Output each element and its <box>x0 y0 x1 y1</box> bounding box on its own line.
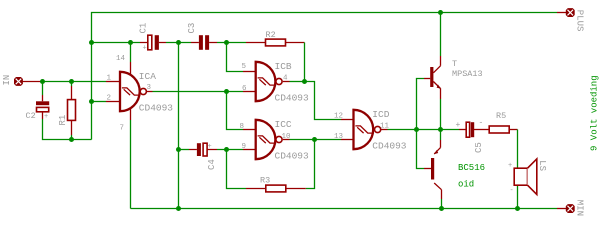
pad PLUS <box>566 9 584 32</box>
svg-text:LS: LS <box>537 160 547 171</box>
op-amp gate ICA <box>107 55 174 133</box>
transistor Q1 T MPSA13 <box>430 59 482 89</box>
svg-text:+: + <box>508 162 512 170</box>
capacitor C3 <box>187 23 217 50</box>
pin 8 ICC <box>243 129 256 131</box>
svg-text:CD4093: CD4093 <box>372 141 407 152</box>
wire C1 to C3 segment <box>166 42 191 44</box>
wire top PLUS rail <box>92 13 558 43</box>
pin 2 ICA <box>106 101 120 103</box>
svg-text:13: 13 <box>334 133 344 141</box>
pad MIN <box>566 200 584 216</box>
svg-text:IN: IN <box>2 75 12 86</box>
wire bottom MIN rail <box>131 208 558 210</box>
svg-text:ICA: ICA <box>139 71 156 82</box>
pin 9 ICC <box>243 149 256 151</box>
wire ICD out to bases node <box>388 129 441 131</box>
pin 10 ICC output <box>283 139 290 141</box>
op-amp gate ICC <box>240 119 310 162</box>
wire C4 right to pin9 <box>217 149 243 151</box>
svg-text:6: 6 <box>242 85 247 93</box>
wire C2 bottom to rail <box>43 119 92 140</box>
svg-text:3: 3 <box>147 84 152 92</box>
resistor R5 <box>489 111 509 133</box>
wire MIN pad stub <box>557 208 566 210</box>
node junction C3-R2 <box>224 40 229 45</box>
wire T emitter to node <box>440 99 442 130</box>
wire C2 branch <box>42 82 44 96</box>
svg-text:ICC: ICC <box>275 119 292 130</box>
node junction bases <box>414 127 419 132</box>
node junction IN-C2 <box>40 79 45 84</box>
wire ICB out to node <box>290 81 305 83</box>
wire node C3R2 down to pin5 <box>227 43 244 72</box>
wire pin7 to rail <box>130 120 132 209</box>
resistor R2 <box>266 30 286 46</box>
wire pin14 drop <box>130 43 132 63</box>
svg-text:ICD: ICD <box>372 109 389 120</box>
wire IN net <box>23 81 43 83</box>
wire R5 down to LS <box>517 130 519 209</box>
svg-text:R5: R5 <box>496 111 506 121</box>
svg-text:-: - <box>510 187 514 195</box>
resistor R1 <box>58 86 76 135</box>
wire C3 to R2 node segment <box>217 42 246 44</box>
capacitor C1 <box>139 23 167 53</box>
wire C4 left stub <box>179 149 190 151</box>
pin 7 ICA <box>130 108 132 120</box>
svg-text:C4: C4 <box>207 159 217 170</box>
node junction ICA out <box>224 89 229 94</box>
svg-text:-: - <box>479 119 484 128</box>
svg-text:9 Volt voeding: 9 Volt voeding <box>590 75 600 151</box>
svg-text:+: + <box>456 121 461 130</box>
node junction T collector rail <box>438 10 443 15</box>
resistor R3 lead right <box>286 188 306 190</box>
pin emitter T <box>440 88 442 99</box>
pin 11 ICD output <box>380 129 387 131</box>
wire R2 down to ICB out <box>304 43 306 82</box>
svg-text:R1: R1 <box>58 115 68 126</box>
pin collector BC516 <box>441 190 443 199</box>
node junction pin2 <box>89 99 94 104</box>
svg-text:11: 11 <box>380 122 390 130</box>
node junction VDD-C1 <box>89 40 94 45</box>
node junction ICC out <box>312 137 317 142</box>
svg-text:14: 14 <box>116 55 126 63</box>
pin emitter BC516 <box>440 140 442 148</box>
node junction R2-ICB out <box>302 79 307 84</box>
svg-text:ICB: ICB <box>275 61 292 72</box>
node junction R1 bottom <box>69 137 74 142</box>
wire node to BC516 emitter <box>440 130 442 141</box>
resistor R2 lead left <box>246 42 266 44</box>
speaker LS <box>508 159 547 195</box>
svg-text:MIN: MIN <box>575 200 585 216</box>
svg-text:12: 12 <box>334 112 343 120</box>
pin 13 ICD <box>341 139 354 141</box>
svg-text:T: T <box>452 59 457 69</box>
pin 14 ICA <box>130 62 132 75</box>
capacitor C4 <box>189 143 217 170</box>
wire ICB out to pin12 <box>305 82 342 120</box>
svg-text:CD4093: CD4093 <box>139 103 174 114</box>
capacitor C5 <box>456 119 485 154</box>
wire R1 top <box>71 82 73 87</box>
wire ICA out to ICB pin6 <box>153 91 244 93</box>
op-amp gate ICD <box>334 109 407 152</box>
node junction LS rail <box>515 206 520 211</box>
pin 1 ICA <box>106 81 120 83</box>
svg-text:oid: oid <box>458 180 474 190</box>
node junction C4-gnd <box>176 147 181 152</box>
pin 5 ICB <box>243 71 256 73</box>
svg-text:CD4093: CD4093 <box>275 151 310 162</box>
pin 6 ICB <box>243 91 256 93</box>
pin 12 ICD <box>341 119 354 121</box>
svg-text:R2: R2 <box>266 30 276 40</box>
wire base BC516 dropper <box>417 130 425 169</box>
svg-text:+: + <box>44 113 48 121</box>
node junction pin14 <box>128 40 133 45</box>
node junction emitters <box>438 127 443 132</box>
svg-text:10: 10 <box>282 133 292 141</box>
resistor R3 <box>260 176 286 192</box>
svg-text:PLUS: PLUS <box>575 10 585 32</box>
node junction gnd rail x178 <box>176 206 181 211</box>
svg-text:4: 4 <box>283 75 288 83</box>
node junction C1-gnd <box>176 40 181 45</box>
wire BC516 collector to rail <box>441 199 443 209</box>
pin base T <box>424 78 430 80</box>
wire VDD row to C1 <box>92 42 141 44</box>
wire ground vertical x178 <box>178 43 180 209</box>
svg-text:5: 5 <box>242 63 247 71</box>
wire ICC out to pin13 <box>290 139 342 141</box>
svg-text:C1: C1 <box>139 23 149 34</box>
wire IN to pin1 <box>43 81 107 83</box>
svg-text:C2: C2 <box>26 111 36 121</box>
wire ICC out down to R3 <box>306 140 315 189</box>
wire R3 to pin9 node <box>227 150 247 189</box>
svg-text:R3: R3 <box>260 176 270 186</box>
svg-text:+: + <box>143 45 147 53</box>
pin collector T <box>440 56 442 66</box>
pin 4 ICB output <box>283 81 290 83</box>
svg-text:BC516: BC516 <box>458 163 485 173</box>
svg-text:8: 8 <box>240 123 245 131</box>
pin C5 left <box>459 129 466 131</box>
wire node to C5 <box>441 129 460 131</box>
pad IN <box>2 75 22 86</box>
wire pin2 net <box>92 101 107 103</box>
wire T collector to rail <box>440 13 442 57</box>
wire PLUS pad stub <box>557 12 566 14</box>
wire ICA out down to pin8 <box>227 92 244 130</box>
wire base T riser <box>417 79 425 130</box>
svg-text:7: 7 <box>120 125 125 133</box>
svg-text:+: + <box>208 143 212 151</box>
node junction IN-R1 <box>69 79 74 84</box>
svg-text:C5: C5 <box>474 142 484 153</box>
resistor R3 lead left <box>246 188 266 190</box>
svg-text:CD4093: CD4093 <box>275 93 310 104</box>
node junction BC516 collector rail <box>439 206 444 211</box>
wire R1 bottom <box>71 135 73 140</box>
pin 3 ICA output <box>146 91 152 93</box>
capacitor C2 <box>26 95 50 121</box>
svg-text:9: 9 <box>242 143 247 151</box>
svg-text:1: 1 <box>107 75 112 83</box>
wire C5 to R5 <box>474 129 490 131</box>
svg-text:2: 2 <box>107 95 112 103</box>
node junction C4-pin9 <box>224 147 229 152</box>
svg-text:MPSA13: MPSA13 <box>452 69 483 79</box>
wire left vertical net <box>91 43 93 140</box>
op-amp gate ICB <box>242 61 310 104</box>
pin base BC516 <box>424 168 431 170</box>
transistor Q2 BC516 <box>431 148 485 190</box>
svg-text:C3: C3 <box>187 23 197 34</box>
resistor R5 lead right <box>509 129 517 131</box>
resistor R2 lead right <box>286 42 305 44</box>
